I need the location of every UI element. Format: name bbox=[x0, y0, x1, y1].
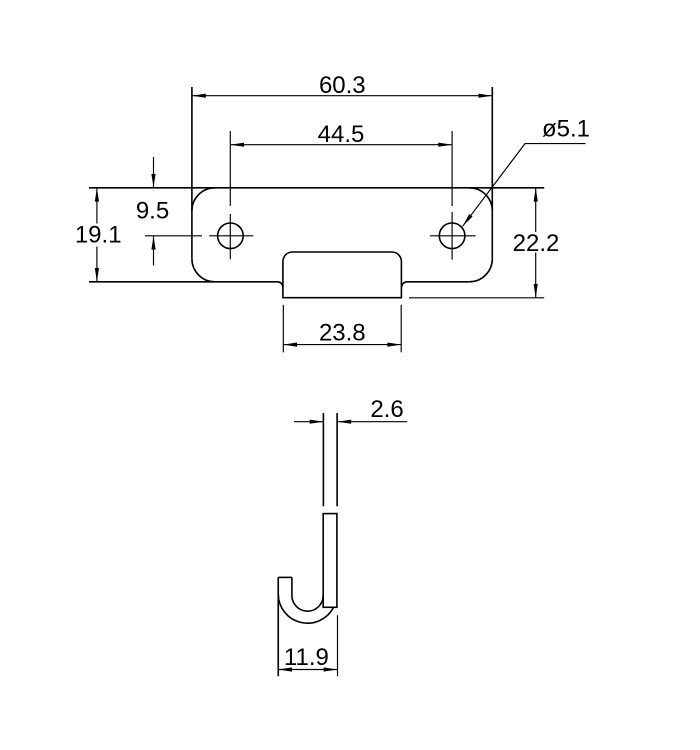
arrow 22.2 top bbox=[534, 188, 538, 202]
dimension line 22.2 upper part bbox=[535, 188, 537, 232]
23.8 extension line left bbox=[282, 305, 284, 353]
arrow 9.5 down bbox=[151, 174, 155, 188]
hook shank upper segment left line bbox=[322, 413, 324, 506]
plate corner arc top-left bbox=[192, 188, 215, 211]
hole right horizontal centerline bbox=[430, 235, 476, 237]
plate bottom edge left with extension bbox=[89, 282, 283, 287]
22.2 bottom extension line bbox=[409, 297, 544, 299]
svg-text:60.3: 60.3 bbox=[319, 72, 366, 99]
44.5 extension line right bbox=[451, 131, 453, 206]
hook arm top edge bbox=[278, 576, 292, 578]
dimension line 19.1 lower part bbox=[96, 247, 98, 282]
plate corner arc bottom-left bbox=[192, 259, 215, 282]
hole right vertical centerline bbox=[451, 212, 453, 260]
plate left edge with 60.3 extension bbox=[191, 87, 193, 259]
dimension line 19.1 upper part bbox=[96, 188, 98, 224]
9.5 lower arrow line bbox=[153, 236, 155, 266]
2.6 right arrow line bbox=[337, 421, 407, 423]
hook arm outer edge merged with extension line bbox=[277, 577, 279, 676]
arrow 19.1 bottom bbox=[95, 268, 99, 282]
plate bottom edge right bbox=[402, 282, 470, 287]
hole left centerline extension to 9.5 dim bbox=[145, 235, 202, 237]
44.5 extension line left bbox=[229, 131, 231, 206]
leader line for hole diameter bbox=[463, 144, 586, 227]
arrow 60.3 right bbox=[479, 94, 493, 98]
plate corner arc bottom-right bbox=[469, 259, 492, 282]
arrow 44.5 left bbox=[230, 143, 244, 147]
svg-text:22.2: 22.2 bbox=[513, 230, 560, 257]
tab outline bbox=[283, 252, 402, 298]
hook shank upper segment right line bbox=[336, 413, 338, 506]
dimension line 23.8 bbox=[283, 344, 401, 346]
plate top edge with extension lines bbox=[89, 187, 544, 189]
11.9 right extension line bbox=[337, 615, 339, 676]
svg-text:19.1: 19.1 bbox=[75, 222, 122, 249]
arrow 44.5 right bbox=[438, 143, 452, 147]
arrow 60.3 left bbox=[192, 94, 206, 98]
23.8 extension line right bbox=[400, 305, 402, 353]
arrow 19.1 top bbox=[95, 188, 99, 202]
hole left horizontal centerline bbox=[209, 235, 253, 237]
hook shank lower rectangle bbox=[323, 514, 337, 608]
dimension line 22.2 lower part bbox=[535, 253, 537, 298]
arrow leader tip bbox=[461, 214, 473, 228]
svg-text:11.9: 11.9 bbox=[284, 644, 329, 671]
2.6 left arrow line bbox=[294, 421, 324, 423]
dimension line 60.3 bbox=[192, 95, 492, 97]
9.5 upper arrow line bbox=[153, 157, 155, 188]
hook inner arc bbox=[292, 596, 323, 612]
arrow 23.8 right bbox=[387, 343, 401, 347]
svg-text:9.5: 9.5 bbox=[136, 198, 169, 225]
plate right edge with 60.3 extension bbox=[491, 87, 493, 259]
hole right bbox=[439, 223, 465, 249]
arrow 22.2 bottom bbox=[534, 284, 538, 298]
arrow 9.5 up bbox=[151, 236, 155, 250]
arrow 2.6 left bbox=[310, 420, 324, 424]
hook outer arc bbox=[278, 594, 333, 623]
svg-text:23.8: 23.8 bbox=[319, 320, 366, 347]
svg-text:44.5: 44.5 bbox=[318, 121, 365, 148]
hole left vertical centerline bbox=[229, 214, 231, 259]
hook arm inner edge bbox=[291, 577, 293, 595]
arrow 11.9 left bbox=[278, 667, 292, 671]
plate corner arc top-right bbox=[469, 188, 492, 211]
11.9 dimension line bbox=[278, 669, 337, 671]
hole left bbox=[218, 223, 244, 249]
arrow 2.6 right bbox=[337, 420, 351, 424]
svg-text:ø5.1: ø5.1 bbox=[542, 115, 590, 142]
arrow 11.9 right bbox=[324, 667, 338, 671]
svg-text:2.6: 2.6 bbox=[370, 396, 403, 423]
arrow 23.8 left bbox=[283, 343, 297, 347]
dimension line 44.5 bbox=[230, 144, 452, 146]
